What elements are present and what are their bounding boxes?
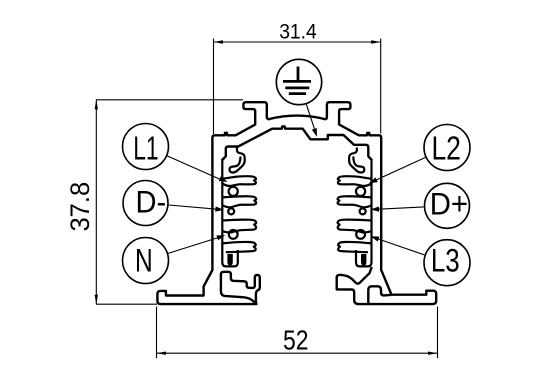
label circle D- [123,181,168,226]
earth leader arrow [306,104,317,137]
track profile outer contour [157,102,436,304]
dimension 31.4 (top width) [214,39,381,135]
svg-text:37.8: 37.8 [65,182,95,232]
leader arrow L3 [371,236,425,255]
insulator bottom leg [222,249,238,266]
inner cavity ceiling with earth contact pocket [222,126,371,160]
leader arrow N [168,235,226,253]
finger F2 [222,196,256,207]
contact conductor bottom [229,230,238,239]
dimension 52 (bottom width) [157,307,438,359]
svg-text:D+: D+ [430,185,468,221]
svg-text:52: 52 [283,325,309,356]
wall inner face [221,159,223,250]
leader arrow D+ [371,207,424,212]
insulator top hook [229,148,244,173]
earth label circle [276,59,321,104]
label circle N [123,238,169,284]
svg-text:31.4: 31.4 [279,18,317,43]
svg-text:L1: L1 [133,130,158,167]
label circle D+ [425,183,470,228]
leader arrow L2 [369,157,426,183]
bottom left insulator pocket [221,272,260,304]
contact conductor middle [228,208,234,214]
dimension 37.8 (left height) [96,100,243,304]
bottom right mounting foot [368,286,391,304]
contact conductor top [229,187,238,196]
svg-text:L3: L3 [431,242,460,278]
label circle L2 [424,125,470,171]
earth symbol [283,67,311,94]
leader arrow D- [169,205,224,212]
svg-text:N: N [135,243,153,279]
finger F4 [222,242,256,252]
label circle L1 [123,124,169,170]
label circle L3 [424,240,470,286]
right insulator contact stack (mirrored) [338,148,372,267]
finger F1 [222,176,256,186]
svg-text:D-: D- [136,184,167,220]
left insulator contact stack [222,148,256,267]
svg-text:L2: L2 [431,130,461,167]
finger F3 [222,220,256,233]
leader arrow L1 [167,156,228,182]
